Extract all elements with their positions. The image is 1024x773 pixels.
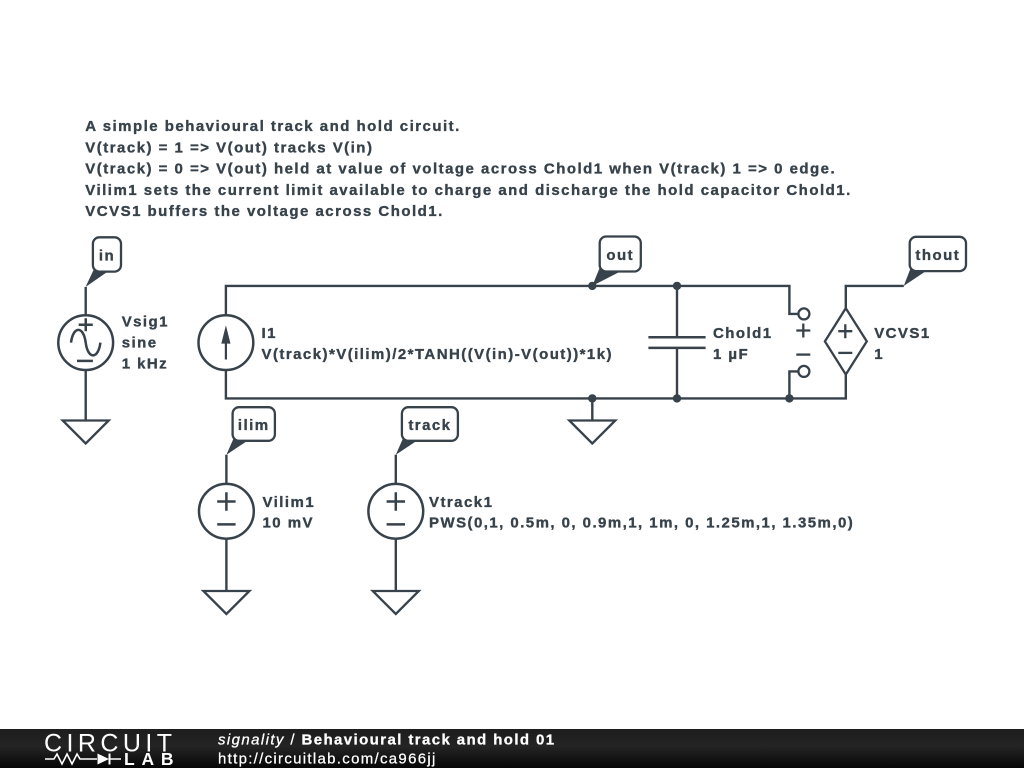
svg-text:I1: I1 [262, 325, 277, 342]
junction dots [588, 282, 794, 403]
wire capacitor bottom stem [676, 348, 678, 399]
node out junction dot [588, 282, 596, 290]
svg-text:V(track) = 1 => V(out) tracks: V(track) = 1 => V(out) tracks V(in) [85, 139, 373, 156]
svg-text:Chold1: Chold1 [713, 325, 773, 342]
node thout flag [904, 237, 966, 286]
svg-text:V(track)*V(ilim)/2*TANH((V(in): V(track)*V(ilim)/2*TANH((V(in)-V(out))*1… [262, 346, 613, 363]
wire Vsig1 top [84, 287, 86, 314]
svg-text:in: in [99, 247, 115, 264]
wire Vtrack1 bottom to ground [395, 540, 397, 591]
svg-text:signality / Behavioural track: signality / Behavioural track and hold 0… [218, 731, 556, 748]
svg-text:1: 1 [874, 346, 884, 363]
svg-text:LAB: LAB [124, 749, 174, 768]
wire Vtrack1 top [395, 455, 397, 483]
svg-text:10 mV: 10 mV [263, 515, 314, 532]
svg-text:1 µF: 1 µF [713, 346, 749, 363]
current source I1 [199, 315, 254, 370]
node ground tap junction [588, 394, 596, 402]
label VCVS1 [874, 325, 930, 363]
svg-text:Vilim1: Vilim1 [263, 494, 316, 511]
label Chold1 [713, 325, 773, 363]
ground below Vtrack1 [373, 591, 419, 614]
wire Vilim1 bottom to ground [225, 540, 227, 591]
logo resistor-diode squiggle [45, 754, 121, 765]
wire capacitor top stem [676, 286, 678, 337]
svg-text:A simple behavioural track and: A simple behavioural track and hold circ… [85, 118, 460, 135]
wire Vsig1 bottom to ground [84, 371, 86, 421]
wire out-node ground stub [591, 398, 593, 420]
voltage source Vsig1 (sine) [58, 315, 113, 370]
svg-text:ilim: ilim [238, 417, 270, 434]
label Vilim1 [263, 494, 316, 532]
op-amp-style dependent source VCVS1 [796, 308, 867, 377]
node in flag [86, 237, 122, 287]
ground below out node [569, 421, 615, 444]
description text block [85, 118, 851, 220]
svg-text:sine: sine [122, 334, 158, 351]
ground below Vilim1 [203, 591, 249, 614]
svg-text:VCVS1: VCVS1 [874, 325, 930, 342]
wire Vilim1 top [225, 455, 227, 483]
node out flag [592, 237, 641, 286]
svg-text:Vsig1: Vsig1 [122, 314, 169, 331]
wire VCVS top to thout flag [846, 286, 904, 308]
svg-text:Vtrack1: Vtrack1 [429, 494, 493, 511]
svg-text:track: track [408, 417, 451, 434]
voltage source Vilim1 [199, 484, 254, 539]
svg-text:PWS(0,1, 0.5m, 0, 0.9m,1, 1m,: PWS(0,1, 0.5m, 0, 0.9m,1, 1m, 0, 1.25m,1… [429, 515, 854, 532]
node ilim flag [226, 407, 275, 455]
wire top rail from I1 to VCVS input corner [226, 286, 799, 314]
voltage source Vtrack1 [368, 484, 423, 539]
svg-text:V(track) = 0 => V(out) held at: V(track) = 0 => V(out) held at value of … [85, 161, 836, 178]
svg-text:Vilim1 sets the current limit: Vilim1 sets the current limit available … [85, 182, 851, 199]
svg-text:thout: thout [915, 247, 960, 264]
capacitor Chold1 [648, 337, 705, 348]
svg-text:VCVS1 buffers the voltage acro: VCVS1 buffers the voltage across Chold1. [85, 203, 443, 220]
svg-text:http://circuitlab.com/ca966jj: http://circuitlab.com/ca966jj [218, 750, 437, 767]
svg-text:1 kHz: 1 kHz [122, 355, 168, 372]
node track flag [396, 407, 458, 455]
CircuitLab logo wordmark [44, 729, 174, 769]
ground below Vsig1 [63, 421, 109, 444]
wire bottom rail from I1 to VCVS bottom [226, 371, 846, 399]
label I1 [262, 325, 613, 363]
node VCVS input bottom junction [785, 394, 793, 402]
label Vsig1 [122, 314, 169, 373]
node capacitor bottom junction [673, 394, 681, 402]
wire VCVS lower input to bottom rail [789, 371, 798, 398]
node capacitor top junction [673, 282, 681, 290]
svg-text:out: out [606, 247, 634, 264]
label Vtrack1 [429, 494, 854, 532]
